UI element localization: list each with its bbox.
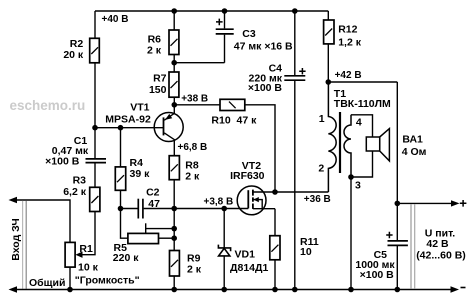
resistor R7 bbox=[169, 72, 179, 97]
wire R5 wiper to bus bbox=[146, 228, 175, 230]
node dot gate/R8 bbox=[171, 206, 177, 212]
svg-text:C3: C3 bbox=[242, 28, 256, 40]
wire source to R11 bbox=[274, 209, 276, 236]
label ВА1 4 Ом bbox=[402, 134, 427, 159]
svg-text:×100 В: ×100 В bbox=[248, 82, 283, 94]
label R6 2 к bbox=[147, 34, 162, 57]
resistor R10 bbox=[220, 99, 245, 110]
resistor R6 bbox=[169, 30, 179, 55]
svg-text:+3,8 В: +3,8 В bbox=[204, 197, 234, 208]
svg-text:2 к: 2 к bbox=[187, 264, 202, 276]
wire R9 to ground bbox=[173, 276, 175, 290]
svg-text:ВА1: ВА1 bbox=[402, 134, 423, 146]
svg-text:+36 В: +36 В bbox=[304, 194, 331, 205]
capacitor C5 bbox=[388, 241, 408, 246]
label C4 220 мк ×100 В bbox=[248, 62, 283, 94]
label R5 220 к bbox=[113, 242, 139, 264]
wire input to R1 top bbox=[16, 200, 70, 242]
output minus sign bbox=[461, 287, 466, 289]
node dot pin3 bbox=[348, 174, 354, 180]
wire C3 top to rail bbox=[224, 11, 226, 28]
node dot gate/VD1 bbox=[221, 206, 227, 212]
svg-text:1,2 к: 1,2 к bbox=[338, 37, 362, 49]
label C5 1000 мк ×100 В bbox=[355, 249, 395, 281]
node dot VD1/ground bbox=[221, 287, 227, 293]
svg-text:R1: R1 bbox=[79, 243, 93, 255]
label VT1 MPSA-92 bbox=[105, 101, 151, 125]
label C1 0,47 мк ×100 В bbox=[45, 135, 89, 168]
wire +38 row to R10 bbox=[174, 104, 220, 106]
wire +42 to C5 column bbox=[396, 82, 398, 290]
svg-text:10: 10 bbox=[300, 246, 312, 258]
wire gate row left bbox=[121, 208, 138, 210]
node dot C4/ground bbox=[292, 287, 298, 293]
label R11 10 bbox=[300, 236, 319, 258]
wire C1 to R3 bbox=[94, 163, 96, 187]
label R12 1,2 к bbox=[338, 24, 362, 49]
label VD1 Д814Д1 bbox=[230, 249, 268, 275]
wire R10 to drain bbox=[245, 105, 275, 192]
node dot +38V bbox=[172, 102, 178, 108]
svg-text:R3: R3 bbox=[73, 174, 87, 186]
capacitor C1 bbox=[86, 159, 107, 163]
node dot R9/ground bbox=[171, 287, 177, 293]
transistor VT1 bbox=[154, 105, 183, 156]
wire rail to R6 bbox=[173, 11, 175, 30]
svg-text:C2: C2 bbox=[146, 187, 160, 199]
zener diode VD1 bbox=[218, 209, 230, 290]
wire R3 to R1 wiper bbox=[82, 212, 95, 255]
wire R6 to R7 bbox=[173, 55, 175, 73]
wire R8 to gate row bbox=[173, 180, 175, 209]
resistor R11 bbox=[270, 236, 280, 260]
R1 wiper arrowhead bbox=[75, 252, 82, 258]
svg-text:Д814Д1: Д814Д1 bbox=[230, 262, 268, 274]
output cable line 2 bbox=[414, 204, 416, 289]
svg-text:"Громкость": "Громкость" bbox=[75, 274, 140, 286]
label U пит. 42 В (42...60 В) bbox=[416, 228, 466, 262]
label R1 10 к bbox=[75, 243, 140, 286]
svg-text:42 В: 42 В bbox=[426, 238, 449, 250]
svg-text:×100 В: ×100 В bbox=[360, 269, 395, 281]
resistor R12 bbox=[324, 20, 334, 44]
wire node to C1 bbox=[94, 128, 96, 159]
node dot R5 end bbox=[171, 235, 177, 241]
label Т1 ТВК-110ЛМ bbox=[334, 88, 391, 110]
svg-text:R12: R12 bbox=[338, 24, 357, 36]
node dot drain bbox=[272, 189, 278, 195]
wire R4 top bbox=[120, 128, 122, 167]
svg-text:×100 В: ×100 В bbox=[45, 156, 80, 168]
input arrow bottom bbox=[9, 286, 18, 292]
wire gate row to VT2 bbox=[144, 208, 249, 210]
wire gate column to R9 bbox=[173, 209, 175, 251]
wire rail to R2 bbox=[94, 11, 96, 38]
wire R7 to +38 node bbox=[173, 97, 175, 105]
C5 plus sign bbox=[386, 232, 392, 238]
svg-text:R10 47 к: R10 47 к bbox=[211, 114, 257, 126]
input cable line 1 bbox=[22, 201, 24, 289]
wire R12 to +42 node bbox=[327, 44, 329, 82]
capacitor C3 bbox=[216, 29, 234, 34]
label R8 2 к bbox=[185, 159, 200, 182]
transformer T1 core bbox=[339, 112, 341, 173]
svg-text:220 к: 220 к bbox=[113, 252, 139, 264]
svg-text:10 к: 10 к bbox=[78, 262, 99, 274]
node dot base/R4 bbox=[118, 125, 124, 131]
label R2 20 к bbox=[63, 38, 84, 61]
capacitor C2 bbox=[138, 199, 143, 219]
svg-text:2 к: 2 к bbox=[147, 45, 162, 57]
resistor R3 bbox=[90, 187, 100, 211]
node dot R6/R7/C3 bbox=[171, 60, 177, 66]
svg-text:4 Ом: 4 Ом bbox=[402, 146, 427, 158]
transistor VT2 bbox=[237, 186, 275, 215]
speaker BA1 bbox=[366, 129, 389, 161]
svg-text:+40 В: +40 В bbox=[102, 14, 129, 25]
node dot +42V bbox=[326, 79, 332, 85]
node dot pin3/ground bbox=[348, 287, 354, 293]
node dot C5/ground bbox=[395, 287, 401, 293]
svg-text:39 к: 39 к bbox=[130, 168, 151, 180]
node dot rail/C4 bbox=[292, 8, 298, 14]
label R9 2 к bbox=[187, 253, 202, 276]
svg-text:+38 В: +38 В bbox=[181, 94, 208, 105]
svg-text:Вход ЗЧ: Вход ЗЧ bbox=[10, 218, 22, 260]
svg-text:R6: R6 bbox=[148, 34, 162, 46]
wire base row bbox=[95, 127, 164, 129]
output cable line 1 bbox=[410, 204, 412, 289]
svg-text:(42...60 В): (42...60 В) bbox=[416, 250, 466, 262]
wire R2 to base node bbox=[94, 63, 96, 128]
wire drain to transformer bbox=[275, 191, 328, 193]
output plus arrowhead bbox=[451, 200, 460, 206]
svg-text:IRF630: IRF630 bbox=[230, 170, 265, 182]
node dot gate/R4 bbox=[118, 206, 124, 212]
wire R1 bottom bbox=[69, 267, 71, 289]
output minus arrowhead bbox=[451, 286, 460, 292]
svg-text:3: 3 bbox=[355, 180, 361, 192]
input cable line 2 bbox=[25, 201, 27, 289]
wire output plus bbox=[397, 202, 451, 204]
wire R11 to ground bbox=[274, 260, 276, 290]
wire C3 branch bbox=[174, 35, 224, 63]
label R7 150 bbox=[149, 73, 167, 96]
transformer T1 secondary bbox=[344, 115, 351, 177]
svg-text:eschemo.ru: eschemo.ru bbox=[10, 98, 86, 113]
R5 wiper stub bbox=[145, 223, 147, 233]
svg-text:+42 В: +42 В bbox=[335, 70, 362, 81]
wire top +40V rail bbox=[95, 10, 328, 12]
svg-text:1: 1 bbox=[319, 113, 325, 125]
wire R4 bottom bbox=[120, 190, 122, 208]
input arrow top bbox=[9, 197, 18, 203]
node dot rail/C3 bbox=[222, 8, 228, 14]
resistor R4 bbox=[115, 167, 125, 190]
wire R5 right lead bbox=[159, 237, 175, 239]
svg-text:R7: R7 bbox=[153, 73, 167, 85]
node dot rail/R6 bbox=[171, 8, 177, 14]
label R4 39 к bbox=[130, 157, 151, 180]
svg-text:20 к: 20 к bbox=[63, 49, 84, 61]
svg-text:Общий: Общий bbox=[29, 277, 65, 289]
wire C4 column bbox=[294, 11, 296, 290]
C3 plus sign bbox=[216, 19, 223, 26]
label VT2 IRF630 bbox=[230, 160, 265, 182]
svg-text:2: 2 bbox=[318, 162, 324, 174]
svg-text:VD1: VD1 bbox=[235, 249, 256, 261]
wire pin3 to ground bbox=[350, 177, 352, 290]
svg-text:150: 150 bbox=[149, 84, 167, 96]
wire secondary bottom to speaker bbox=[351, 151, 373, 177]
wire drop to R5 bbox=[121, 209, 128, 239]
svg-text:47 мк ×16 В: 47 мк ×16 В bbox=[234, 40, 293, 52]
label C2 47 bbox=[146, 187, 160, 210]
output plus sign bbox=[460, 200, 467, 207]
svg-text:MPSA-92: MPSA-92 bbox=[105, 114, 151, 126]
transformer T1 primary bbox=[328, 82, 336, 192]
svg-text:6,2 к: 6,2 к bbox=[63, 186, 87, 198]
capacitor C4 bbox=[284, 76, 305, 80]
node dot R11/ground bbox=[272, 287, 278, 293]
label C3 47 мк ×16 В bbox=[234, 28, 293, 52]
node dot base/R2 bbox=[92, 125, 98, 131]
C4 plus sign bbox=[299, 68, 305, 74]
trimmer R5 bbox=[128, 233, 159, 243]
label R3 6,2 к bbox=[63, 174, 87, 198]
svg-text:2 к: 2 к bbox=[185, 170, 200, 182]
node dot R1/ground bbox=[67, 287, 73, 293]
svg-text:4: 4 bbox=[356, 117, 362, 129]
svg-text:VT1: VT1 bbox=[130, 101, 149, 113]
potentiometer R1 bbox=[65, 242, 75, 267]
svg-text:ТВК-110ЛМ: ТВК-110ЛМ bbox=[334, 98, 391, 110]
node dot wiper bbox=[171, 226, 177, 232]
node dot output plus bbox=[395, 201, 401, 207]
ground bus bbox=[16, 289, 451, 291]
wire +42 row to output bbox=[328, 81, 397, 83]
resistor R8 bbox=[169, 156, 179, 180]
wire rail to R12 bbox=[327, 11, 329, 20]
resistor R2 bbox=[90, 38, 100, 63]
resistor R9 bbox=[170, 251, 180, 277]
svg-text:+6,8 В: +6,8 В bbox=[178, 142, 208, 153]
wire secondary top to speaker bbox=[351, 115, 373, 137]
